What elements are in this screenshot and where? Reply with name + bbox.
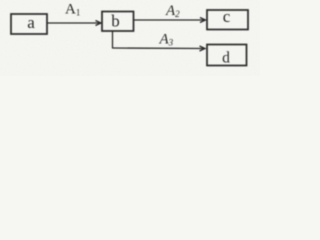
svg-text:b: b bbox=[111, 12, 120, 31]
box d bbox=[207, 45, 247, 66]
box a bbox=[11, 14, 47, 34]
wire arrow b to c bbox=[134, 18, 206, 23]
svg-text:a: a bbox=[27, 13, 35, 32]
svg-text:c: c bbox=[223, 7, 231, 26]
wire b down to d bbox=[112, 31, 205, 51]
box c bbox=[207, 10, 248, 30]
wire arrow a to b bbox=[48, 21, 102, 26]
box b bbox=[102, 12, 134, 32]
svg-text:d: d bbox=[222, 50, 230, 67]
